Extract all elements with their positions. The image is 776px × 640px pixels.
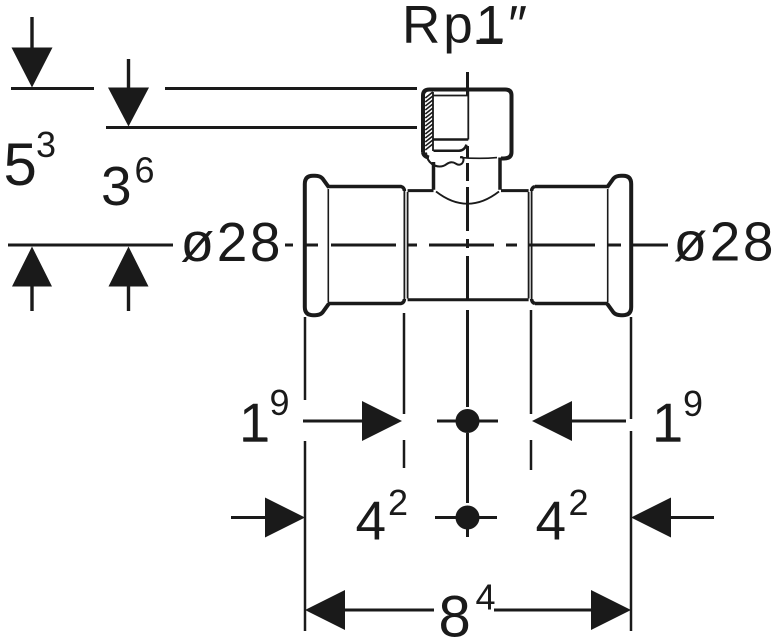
svg-text:4: 4	[476, 577, 496, 618]
thread hatching	[425, 92, 433, 150]
threaded socket thread runout ledge	[434, 145, 467, 151]
tee fitting: branch neck walls	[434, 158, 501, 190]
dimension 3-6 label	[101, 150, 155, 218]
dimension 1-9 left: label	[239, 382, 290, 454]
svg-text:6: 6	[135, 150, 155, 191]
label diameter 28 left	[181, 211, 281, 273]
svg-text:2: 2	[388, 482, 408, 523]
vertical centerline (branch axis, dash-dot)	[466, 72, 469, 537]
svg-text:1: 1	[239, 392, 270, 454]
svg-text:5: 5	[4, 131, 37, 198]
dimension 5-3 label	[4, 124, 57, 198]
label Rp1" (branch thread size)	[402, 0, 527, 55]
tee fitting: central body top and bottom edges	[408, 191, 529, 300]
arrow down at 5-3 line	[12, 17, 53, 88]
label diameter 28 right	[674, 211, 774, 273]
arrow up to centerline for 5-3	[12, 247, 52, 312]
dimension 1-9 right: line and arrow	[532, 401, 626, 441]
svg-text:1: 1	[652, 392, 683, 454]
dimension 4-2 right: outside arrow	[631, 498, 714, 538]
tee fitting: left socket outline	[328, 187, 404, 304]
dimension 8-4: left arrow	[305, 590, 434, 630]
svg-text:3: 3	[36, 124, 56, 165]
tee fitting: left bead junction line	[327, 189, 329, 302]
tee fitting: branch-to-body transition arc	[436, 192, 499, 204]
threaded socket bore bottom line	[433, 138, 468, 141]
svg-text:ø28: ø28	[674, 211, 774, 273]
dimension line 5-3 level	[11, 87, 417, 90]
horizontal centerline (pipe axis, dash-dot)	[8, 244, 668, 247]
threaded socket thread root line	[432, 92, 434, 151]
svg-text:3: 3	[101, 155, 132, 217]
tee fitting: right socket step faces	[529, 190, 532, 300]
tee fitting: right socket outline	[532, 187, 608, 304]
svg-text:8: 8	[439, 585, 471, 640]
tee fitting: right press-socket bead	[607, 176, 631, 315]
broken-out section squiggle	[426, 153, 497, 167]
center dot row 2	[435, 506, 497, 530]
svg-text:ø28: ø28	[181, 211, 281, 273]
tee fitting: left press-socket bead	[305, 176, 329, 315]
dimension 4-2 right: label	[536, 482, 589, 552]
extension line at left bead (x=305)	[304, 317, 307, 631]
dimension 4-2 left: label	[356, 482, 409, 552]
tee fitting: left socket step faces	[404, 190, 407, 300]
threaded socket bore top line	[433, 95, 468, 97]
extension line at right bead (x=631)	[630, 317, 633, 631]
dimension 4-2 left: outside arrow	[231, 498, 305, 538]
svg-text:9: 9	[270, 382, 290, 423]
threaded socket section boundary at centerline	[467, 91, 469, 140]
dimension 8-4: right arrow	[494, 590, 631, 630]
svg-text:4: 4	[356, 490, 387, 552]
dimension 8-4: label	[439, 577, 496, 640]
svg-text:Rp1″: Rp1″	[402, 0, 527, 55]
svg-text:9: 9	[683, 383, 703, 424]
threaded socket Rp1 outline	[423, 90, 512, 159]
tee fitting: right bead junction line	[607, 189, 609, 302]
extension line at right socket step (x=531)	[530, 310, 533, 470]
dimension 1-9 left: line and arrow	[303, 401, 402, 441]
dimension 1-9 right: label	[652, 383, 703, 454]
dimension line 3-6 level	[106, 126, 417, 129]
center dot row 1	[437, 409, 498, 433]
svg-text:4: 4	[536, 490, 567, 552]
arrow up to centerline for 3-6	[109, 247, 149, 312]
arrow down at 3-6 line	[108, 59, 149, 127]
extension line at left socket step (x=404)	[403, 313, 406, 468]
svg-text:2: 2	[569, 482, 589, 523]
